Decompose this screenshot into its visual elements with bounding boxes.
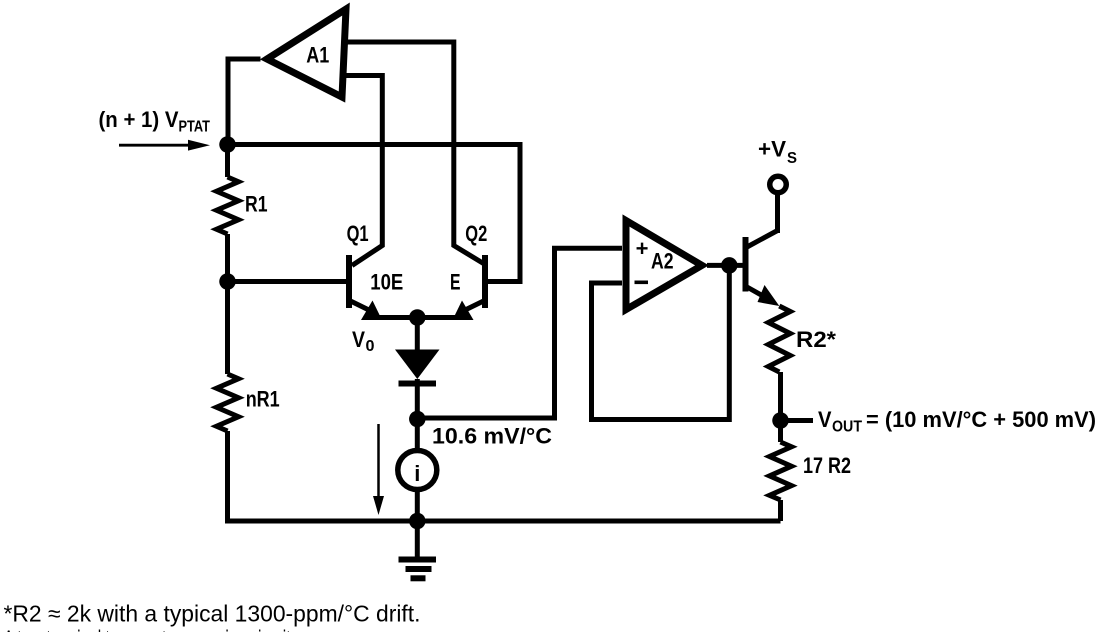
node VOUT junction <box>772 412 789 429</box>
resistor R2* <box>768 306 790 372</box>
svg-text:*R2 ≈ 2k with a typical 1300-p: *R2 ≈ 2k with a typical 1300-ppm/°C drif… <box>4 601 421 627</box>
svg-text:Q1: Q1 <box>347 221 369 246</box>
svg-text:= (10 mV/°C + 500 mV): = (10 mV/°C + 500 mV) <box>866 407 1096 432</box>
label V0 <box>352 327 375 355</box>
wire current source to ground rail <box>415 489 420 521</box>
input arrow <box>119 140 210 151</box>
label +VS <box>758 137 797 167</box>
svg-text:(n + 1) V: (n + 1) V <box>99 107 179 132</box>
label A2 minus pin <box>635 281 649 285</box>
node C junction 10.6mV <box>409 411 426 428</box>
svg-text:A two-terminal temperature sen: A two-terminal temperature sensing circu… <box>4 626 291 632</box>
diode D1 <box>395 350 440 420</box>
svg-text:17 R2: 17 R2 <box>803 453 851 478</box>
svg-text:10.6 mV/°C: 10.6 mV/°C <box>432 423 552 448</box>
svg-text:0: 0 <box>366 338 375 355</box>
wire left rail middle <box>225 234 230 374</box>
wire node A to Q2 base <box>228 145 521 282</box>
ground <box>399 521 437 578</box>
resistor 17R2 <box>770 442 792 500</box>
current source arrow <box>373 424 384 515</box>
svg-text:R2*: R2* <box>796 327 836 352</box>
node A2 output junction <box>721 257 738 274</box>
wire left rail top <box>225 145 230 178</box>
label (n + 1) VPTAT <box>99 107 211 135</box>
svg-text:OUT: OUT <box>832 419 862 436</box>
wire A2 output to Q3 base <box>707 263 744 268</box>
node V0 junction <box>409 309 426 326</box>
resistor nR1 <box>217 374 239 431</box>
svg-text:Q2: Q2 <box>465 221 487 246</box>
svg-text:R1: R1 <box>245 192 268 217</box>
node B junction <box>219 273 236 290</box>
svg-text:i: i <box>414 461 420 486</box>
transistor Q2 <box>453 255 486 320</box>
wire Vout node to 17R2 <box>778 428 783 442</box>
op-amp A1 <box>267 9 346 97</box>
svg-text:+: + <box>636 236 649 261</box>
label VOUT equation <box>818 407 1096 436</box>
wire emitter bus <box>376 315 458 320</box>
op-amp A2 <box>626 221 702 310</box>
resistor R1 <box>217 177 239 234</box>
svg-text:PTAT: PTAT <box>179 119 211 136</box>
wire node B to Q1 base <box>228 279 347 284</box>
wire A2 feedback loop <box>592 265 730 419</box>
node A (n+1)VPTAT junction <box>219 136 236 153</box>
svg-text:A1: A1 <box>306 43 329 68</box>
transistor Q3 <box>746 195 780 306</box>
current source I1 <box>398 451 437 490</box>
svg-text:+V: +V <box>758 137 786 162</box>
ground node junction <box>409 513 426 530</box>
wire Vout stub <box>788 418 813 423</box>
wire A1 input2 to Q1 collector <box>346 76 383 266</box>
wire node C to A2 plus input <box>417 248 622 418</box>
svg-text:10E: 10E <box>370 269 403 294</box>
svg-text:S: S <box>787 150 797 167</box>
wire left rail bottom <box>228 431 781 521</box>
svg-text:A2: A2 <box>651 249 674 274</box>
wire A1 input1 to Q2 collector <box>348 42 484 264</box>
svg-text:nR1: nR1 <box>246 387 280 412</box>
wire A1 output to node A <box>228 59 261 145</box>
wire 17R2 to bottom rail <box>778 500 783 521</box>
transistor Q1 <box>349 255 382 320</box>
wire node C to current source <box>415 419 420 450</box>
wire node V0 to diode <box>415 318 420 351</box>
svg-text:V: V <box>818 407 832 432</box>
terminal +VS <box>770 176 787 193</box>
wire R2* to Vout node <box>778 372 783 421</box>
svg-text:V: V <box>352 327 365 352</box>
svg-text:E: E <box>450 269 461 294</box>
